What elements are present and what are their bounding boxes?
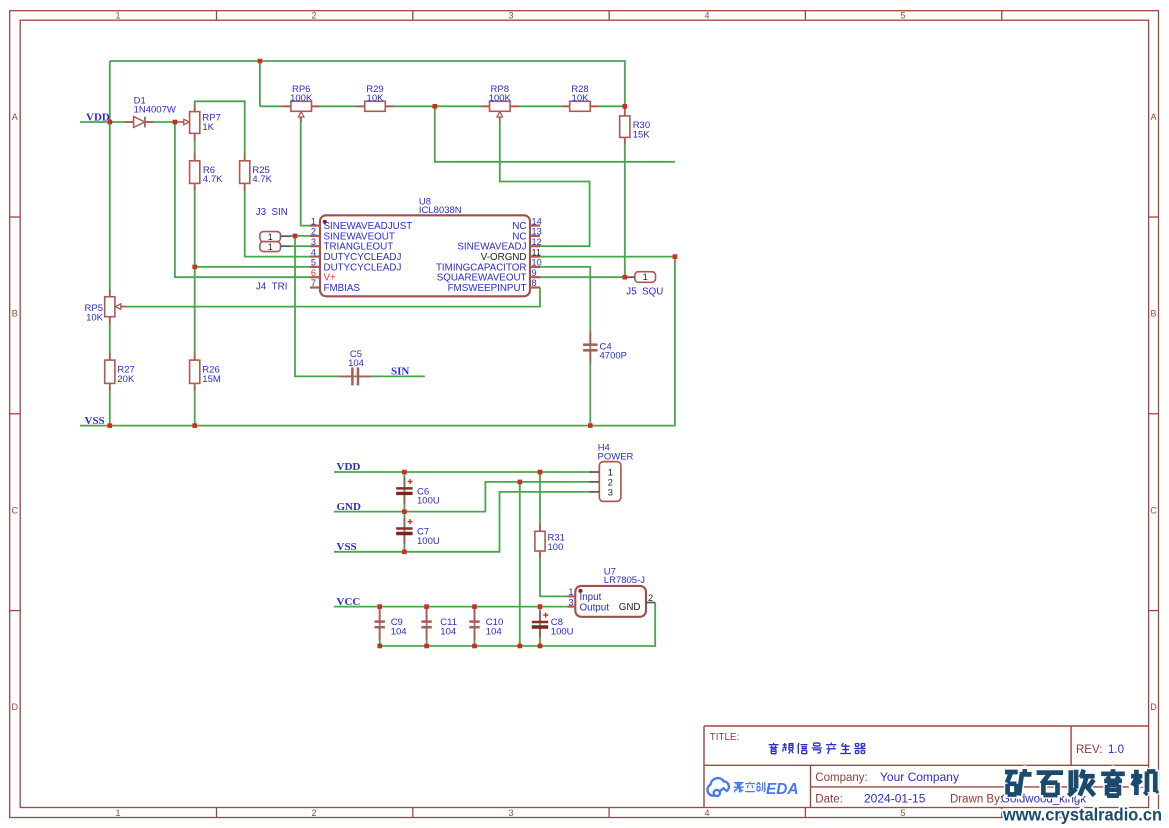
svg-text:2: 2 <box>648 593 653 603</box>
svg-text:4: 4 <box>704 10 709 20</box>
svg-text:3: 3 <box>508 10 513 20</box>
svg-text:Drawn By:: Drawn By: <box>950 794 1003 806</box>
svg-text:4: 4 <box>704 808 709 818</box>
svg-text:1: 1 <box>115 808 120 818</box>
svg-text:4.7K: 4.7K <box>203 174 223 185</box>
svg-text:100U: 100U <box>417 496 440 507</box>
svg-text:14: 14 <box>532 216 542 226</box>
svg-text:VDD: VDD <box>337 461 361 473</box>
svg-text:1: 1 <box>311 216 316 226</box>
svg-text:100: 100 <box>548 542 564 553</box>
svg-text:VDD: VDD <box>86 111 110 123</box>
svg-text:GND: GND <box>337 501 362 513</box>
svg-text:J3 SIN: J3 SIN <box>256 207 288 218</box>
svg-text:13: 13 <box>532 227 542 237</box>
svg-text:4: 4 <box>311 247 316 257</box>
svg-text:Output: Output <box>580 602 610 613</box>
svg-text:10K: 10K <box>572 93 590 104</box>
svg-text:Your Company: Your Company <box>880 770 959 784</box>
svg-text:TITLE:: TITLE: <box>710 732 739 743</box>
svg-text:FMBIAS: FMBIAS <box>324 283 361 294</box>
svg-text:11: 11 <box>532 247 542 257</box>
svg-text:B: B <box>12 309 18 319</box>
svg-text:100U: 100U <box>417 536 440 547</box>
svg-text:C: C <box>12 505 19 515</box>
svg-text:B: B <box>1150 309 1156 319</box>
svg-text:15M: 15M <box>202 374 221 385</box>
svg-text:104: 104 <box>440 626 456 637</box>
svg-text:POWER: POWER <box>598 452 634 463</box>
svg-text:2: 2 <box>311 227 316 237</box>
svg-text:VCC: VCC <box>337 596 361 608</box>
svg-text:4.7K: 4.7K <box>252 174 272 185</box>
svg-text:10K: 10K <box>86 312 104 323</box>
svg-text:9: 9 <box>532 268 537 278</box>
svg-text:2: 2 <box>311 808 316 818</box>
svg-text:LR7805-J: LR7805-J <box>604 575 645 586</box>
svg-text:3: 3 <box>608 487 613 498</box>
svg-text:100K: 100K <box>489 93 512 104</box>
svg-text:6: 6 <box>311 268 316 278</box>
svg-text:104: 104 <box>391 626 407 637</box>
svg-text:2: 2 <box>311 10 316 20</box>
svg-text:3: 3 <box>311 237 316 247</box>
svg-text:A: A <box>1150 112 1156 122</box>
svg-text:4700P: 4700P <box>600 351 627 362</box>
svg-text:D: D <box>12 702 19 712</box>
svg-text:15K: 15K <box>633 129 651 140</box>
svg-text:100U: 100U <box>551 626 574 637</box>
svg-text:D: D <box>1150 702 1157 712</box>
svg-text:GND: GND <box>619 602 641 613</box>
svg-text:Company:: Company: <box>815 772 867 784</box>
svg-text:104: 104 <box>486 626 502 637</box>
svg-text:1: 1 <box>115 10 120 20</box>
svg-text:J5 SQU: J5 SQU <box>626 287 663 298</box>
svg-text:12: 12 <box>532 237 542 247</box>
svg-text:5: 5 <box>900 808 905 818</box>
svg-text:TRIANGLEOUT: TRIANGLEOUT <box>324 242 394 253</box>
svg-text:10K: 10K <box>367 93 385 104</box>
svg-text:3: 3 <box>508 808 513 818</box>
svg-text:10: 10 <box>532 258 542 268</box>
svg-text:VSS: VSS <box>85 415 105 427</box>
svg-text:www.crystalradio.cn: www.crystalradio.cn <box>1002 805 1162 825</box>
svg-text:SIN: SIN <box>391 365 409 377</box>
svg-text:Date:: Date: <box>815 794 843 806</box>
svg-text:2024-01-15: 2024-01-15 <box>864 792 926 806</box>
svg-text:1.0: 1.0 <box>1108 744 1124 756</box>
svg-text:SINEWAVEADJ: SINEWAVEADJ <box>457 242 526 253</box>
svg-text:3: 3 <box>568 597 573 607</box>
svg-text:1N4007W: 1N4007W <box>134 105 176 116</box>
svg-text:ICL8038N: ICL8038N <box>419 205 462 216</box>
svg-text:1: 1 <box>568 587 573 597</box>
svg-text:FMSWEEPINPUT: FMSWEEPINPUT <box>448 283 527 294</box>
svg-text:C: C <box>1150 505 1157 515</box>
svg-text:5: 5 <box>900 10 905 20</box>
svg-text:1: 1 <box>268 242 273 252</box>
svg-text:104: 104 <box>348 358 364 369</box>
svg-text:100K: 100K <box>290 93 313 104</box>
svg-text:1K: 1K <box>202 122 214 133</box>
svg-text:1: 1 <box>643 272 648 282</box>
svg-text:20K: 20K <box>117 374 135 385</box>
svg-text:A: A <box>12 112 18 122</box>
svg-text:8: 8 <box>532 278 537 288</box>
svg-text:VSS: VSS <box>337 541 357 553</box>
svg-text:7: 7 <box>311 278 316 288</box>
svg-text:REV:: REV: <box>1076 744 1102 756</box>
svg-text:1: 1 <box>268 232 273 242</box>
svg-text:Input: Input <box>580 592 602 603</box>
svg-text:EDA: EDA <box>766 781 799 798</box>
svg-text:J4 TRI: J4 TRI <box>256 282 288 293</box>
svg-text:5: 5 <box>311 258 316 268</box>
